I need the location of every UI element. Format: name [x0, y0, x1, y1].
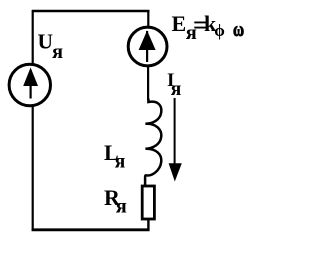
wire bottom horizontal — [32, 228, 150, 231]
svg-text:я: я — [52, 41, 63, 63]
wire below resistor — [147, 219, 149, 231]
current arrow I (head) — [169, 163, 182, 181]
svg-text:E: E — [172, 11, 187, 36]
arrow inside E source — [139, 31, 156, 63]
svg-text:ω: ω — [233, 18, 244, 40]
wire left vertical upper — [32, 10, 34, 64]
svg-text:я: я — [171, 79, 182, 100]
wire right drop to source E — [147, 11, 149, 27]
svg-text:U: U — [38, 30, 54, 54]
arrow inside U source — [23, 68, 38, 99]
wire left vertical lower — [32, 105, 34, 231]
emf source E (circle) — [128, 27, 167, 66]
current arrow I (line) — [174, 98, 176, 167]
svg-text:я: я — [116, 196, 127, 218]
resistor R (rectangle) — [142, 186, 154, 219]
inductor L coil — [145, 99, 161, 186]
wire below E source — [147, 67, 149, 100]
wire top horizontal — [32, 10, 150, 13]
voltage source U (circle) — [9, 64, 50, 105]
svg-text:ϕ: ϕ — [214, 21, 225, 40]
svg-text:я: я — [115, 152, 126, 173]
